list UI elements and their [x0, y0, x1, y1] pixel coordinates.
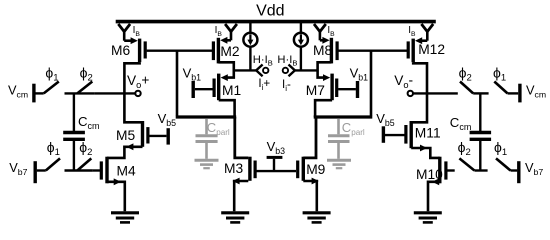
bias terminal Vb1 right — [356, 81, 359, 98]
svg-text:Vdd: Vdd — [256, 2, 284, 19]
terminal Vb7 right — [511, 169, 518, 171]
wire gate feedback drop left — [176, 51, 179, 116]
wire gate feedback drop right — [370, 51, 373, 116]
bias terminal Vb3 — [267, 156, 283, 159]
wire M5 gate to Vb5 — [149, 135, 166, 137]
wire node to Ccm right — [479, 93, 481, 131]
wire bottom switch node to M4 gate — [65, 169, 93, 171]
wire bottom switch node right — [474, 169, 487, 171]
wire M2 source to M1 drain with input node — [218, 62, 233, 77]
switch phi2 top-right — [460, 82, 473, 94]
ground under M3 — [221, 211, 249, 214]
wire switch node top-left — [65, 92, 95, 94]
svg-text:M9: M9 — [306, 162, 325, 177]
switch phi2 top-left — [77, 82, 92, 94]
transistor M1 — [217, 74, 220, 101]
wire M9 source to ground — [303, 181, 317, 211]
transistor M9 — [302, 157, 305, 181]
transistor M6 — [138, 39, 141, 63]
wire M8 gate to M12 gate — [339, 50, 408, 52]
transistor M3 — [248, 157, 251, 181]
wire Ccm left to bottom switch node — [73, 141, 75, 171]
wire M4 source to ground — [107, 182, 125, 211]
svg-text:M8: M8 — [313, 43, 332, 58]
current source H·IB left — [249, 23, 251, 33]
parasitic capacitor Cparl left — [205, 118, 208, 134]
ground under M9 — [303, 211, 331, 214]
transistor M5 — [141, 121, 144, 147]
wire M7 gate to Vb1 right — [338, 88, 356, 90]
svg-text:M1: M1 — [222, 83, 241, 98]
terminal Vb7 left — [34, 161, 37, 183]
capacitor Ccm left — [63, 131, 85, 134]
wire M11 gate to Vb5 right — [385, 134, 405, 136]
wire M9 drain to node line right — [303, 117, 316, 158]
current source IB1 from Vdd — [118, 24, 130, 32]
wire H·IB left to input node — [249, 46, 251, 70]
current source IB2 from Vdd — [225, 24, 237, 32]
wire M7 source to node line right — [315, 100, 332, 117]
svg-text:M11: M11 — [415, 126, 441, 141]
wire M10 gate to switch phi2 right — [447, 169, 454, 171]
wire M12 drain to node Vo- — [411, 62, 427, 122]
ground under M10 — [414, 211, 442, 214]
svg-text:M3: M3 — [224, 161, 243, 176]
terminal Vcm right — [508, 92, 519, 94]
node Vo- terminal — [408, 91, 413, 96]
svg-text:Ii+: Ii+ — [258, 77, 270, 92]
wire node to Ccm left — [73, 93, 75, 131]
bias terminal Vb5 left — [166, 128, 169, 144]
wire node line left — [176, 115, 237, 118]
input terminal Ii+ arrow — [256, 65, 262, 71]
wire M3 gate to M9 gate — [257, 170, 297, 172]
switch phi1 top-left — [44, 82, 59, 94]
bias terminal Vb1 left — [191, 81, 194, 98]
wire M4 gate from switch phi2 — [93, 169, 100, 171]
svg-text:M6: M6 — [111, 43, 130, 58]
ground gray under Cparl right — [327, 159, 351, 162]
transistor M4 — [105, 157, 108, 184]
transistor M8 — [330, 38, 333, 64]
bias terminal Vb5 right — [382, 126, 385, 143]
parasitic capacitor Cparl right — [337, 118, 340, 134]
svg-text:M4: M4 — [117, 164, 136, 179]
wire M11 source to M10 drain — [411, 148, 440, 158]
switch phi1 bottom-left — [46, 158, 60, 170]
wire switch node top-right — [473, 92, 488, 94]
switch phi1 top-right — [494, 82, 507, 94]
transistor M12 — [412, 39, 415, 63]
ground under M4 — [111, 211, 139, 214]
switch phi2 bottom-right — [459, 158, 474, 170]
switch phi1 bottom-right — [496, 158, 511, 170]
wire M6 gate to M2 gate — [147, 50, 212, 52]
wire M10 source to ground — [428, 182, 440, 211]
switch phi2 bottom-left — [77, 158, 91, 170]
wire H·IB right to input node — [300, 46, 302, 70]
wire M6 drain to node Vo+ — [124, 62, 142, 122]
current source IB4 from Vdd — [421, 24, 433, 32]
svg-text:Ii-: Ii- — [282, 78, 291, 93]
wire M1 source to node line left — [219, 100, 235, 117]
wire input node Ii- — [295, 69, 318, 71]
current source H·IB right — [300, 23, 302, 33]
wire M8 source to M7 drain with input node — [318, 62, 332, 77]
transistor M2 — [217, 38, 220, 64]
svg-text:M12: M12 — [418, 42, 445, 57]
wire input node Ii+ — [234, 69, 257, 71]
terminal Vcm left — [32, 84, 35, 103]
wire Vo+ to switch phi2 — [94, 92, 135, 94]
capacitor Ccm right — [470, 131, 492, 134]
svg-text:M2: M2 — [220, 44, 239, 59]
transistor M7 — [330, 74, 333, 101]
wire M5 source to M4 drain — [107, 147, 143, 158]
current source IB3 from Vdd — [314, 24, 326, 32]
wire M1 gate to Vb1 — [195, 88, 213, 90]
wire M3 source to ground — [234, 181, 248, 211]
node Vo+ terminal — [135, 91, 140, 96]
svg-text:M5: M5 — [116, 128, 135, 143]
wire Vdd rail — [116, 20, 436, 24]
transistor M10 — [438, 157, 441, 184]
transistor M11 — [410, 121, 413, 148]
wire Vo- to switch phi2 right — [413, 92, 458, 94]
ground gray under Cparl left — [195, 159, 219, 162]
wire node line right — [314, 115, 373, 118]
input terminal Ii- arrow — [289, 65, 295, 71]
wire Ccm right to bottom switch node — [479, 141, 481, 171]
svg-text:M7: M7 — [306, 83, 325, 98]
wire node line left to M3 drain — [235, 117, 249, 158]
